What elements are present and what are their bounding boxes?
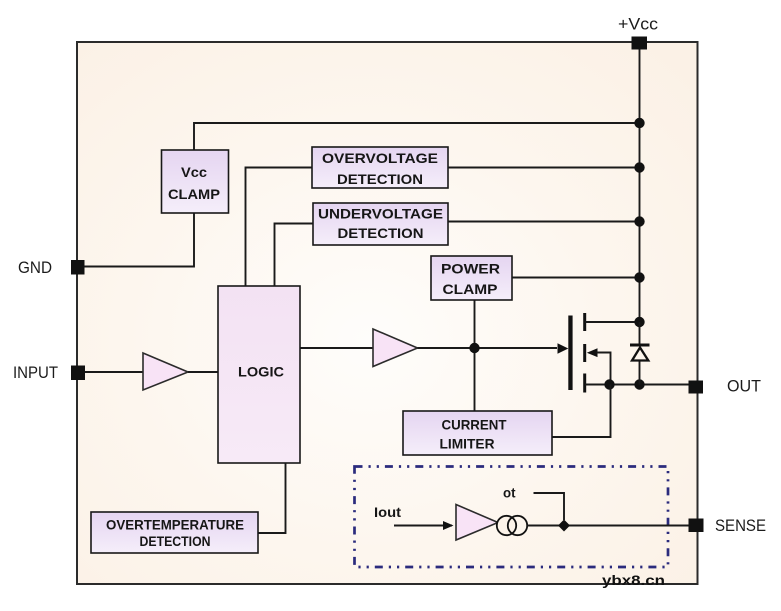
svg-text:LOGIC: LOGIC [238, 364, 284, 380]
svg-text:DETECTION: DETECTION [337, 171, 423, 187]
block LOGIC [218, 286, 300, 463]
svg-text:Iout: Iout [374, 504, 401, 520]
wire power clamp bottom to current limiter [474, 300, 476, 411]
node junction powerclamp/Vcc [634, 272, 644, 282]
svg-text:OUT: OUT [727, 377, 761, 396]
wire Vcc rail vertical [639, 43, 641, 322]
pad +Vcc [632, 37, 648, 50]
wire undervoltage right to Vcc rail [448, 221, 640, 223]
gate arrowhead [558, 343, 569, 354]
svg-text:CLAMP: CLAMP [443, 281, 498, 297]
svg-text:CURRENT: CURRENT [442, 417, 507, 433]
wire ot tap [534, 493, 565, 520]
svg-text:OVERVOLTAGE: OVERVOLTAGE [322, 150, 438, 166]
svg-text:DETECTION: DETECTION [338, 225, 424, 241]
pad GND [71, 260, 85, 275]
wire current limiter right to source [552, 385, 611, 438]
node junction diode/out [634, 379, 644, 389]
wire INPUT pad to buffer [84, 371, 143, 373]
wire overvoltage right to Vcc rail [448, 167, 640, 169]
transistor Q1 drain stub [585, 321, 640, 323]
svg-text:GND: GND [18, 258, 52, 277]
node junction source [604, 379, 614, 389]
svg-text:UNDERVOLTAGE: UNDERVOLTAGE [318, 206, 443, 222]
block UNDERVOLTAGE DETECTION [313, 203, 448, 245]
pad INPUT [71, 366, 85, 381]
IC boundary box [77, 42, 698, 584]
pad SENSE [689, 519, 704, 533]
block OVERTEMPERATURE DETECTION [91, 512, 258, 553]
wire power clamp right to Vcc rail [512, 277, 640, 279]
svg-text:+Vcc: +Vcc [618, 15, 659, 34]
svg-text:CLAMP: CLAMP [168, 186, 220, 202]
node junction Vcc/clamp [634, 118, 644, 128]
diode D1 triangle [632, 348, 648, 361]
svg-text:Vcc: Vcc [181, 164, 207, 180]
wire undervoltage left to logic [275, 224, 314, 287]
wire body to source [597, 353, 611, 385]
diode D1 cathode bar [630, 344, 650, 347]
svg-text:DETECTION: DETECTION [140, 533, 211, 549]
node junction overvoltage/Vcc [634, 162, 644, 172]
wire LOGIC out to buffer2 [300, 347, 373, 349]
dashed sense box [355, 467, 669, 568]
transistor Q1 body arrow [587, 348, 598, 357]
block CURRENT LIMITER [403, 411, 552, 455]
wire LOGIC bottom to overtemp [258, 463, 286, 533]
wire Vcc clamp top horizontal [194, 123, 640, 150]
arrowhead Iout [443, 521, 454, 530]
svg-text:OVERTEMPERATURE: OVERTEMPERATURE [106, 517, 244, 533]
node junction gate drive / power clamp [469, 343, 479, 353]
block Vcc CLAMP [162, 150, 229, 213]
wire buffer2 to gate [418, 347, 558, 349]
wire buffer to LOGIC [188, 371, 218, 373]
node diamond junction sense [558, 520, 570, 532]
wire mirror to sense pad [527, 525, 689, 527]
svg-text:POWER: POWER [441, 261, 500, 277]
svg-text:ybx8.cn: ybx8.cn [602, 572, 665, 588]
block OVERVOLTAGE DETECTION [312, 147, 448, 188]
current mirror circles [497, 516, 516, 535]
node junction drain/Vcc [634, 317, 644, 327]
transistor Q1 gate bar [568, 316, 572, 391]
wire overvoltage left to logic [246, 168, 313, 287]
sense buffer A3 [456, 505, 498, 541]
diode D1 wires [639, 322, 641, 345]
buffer A2 gate drive [373, 329, 418, 367]
node junction undervoltage/Vcc [634, 216, 644, 226]
wire OUT line (source to pad) [585, 384, 689, 386]
svg-text:ot: ot [503, 485, 516, 501]
pad OUT [689, 381, 704, 394]
wire Iout to sense buffer [394, 525, 452, 527]
block POWER CLAMP [431, 256, 512, 300]
transistor Q1 channel segments [583, 313, 586, 331]
buffer A1 input [143, 353, 188, 390]
svg-text:LIMITER: LIMITER [440, 435, 495, 451]
svg-text:INPUT: INPUT [13, 363, 58, 382]
wire GND to Vcc clamp bottom [84, 213, 194, 267]
svg-text:SENSE: SENSE [715, 516, 766, 535]
